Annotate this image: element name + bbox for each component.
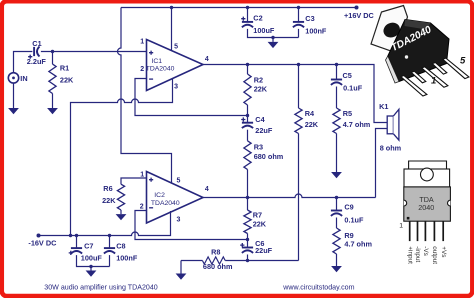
speaker K1 — [387, 116, 393, 134]
wire R8 right — [225, 260, 298, 262]
wire IC2 pin1 — [121, 178, 147, 184]
resistor R3 — [244, 141, 251, 170]
svg-text:+Vs: +Vs — [440, 246, 447, 257]
svg-text:TDA2040: TDA2040 — [146, 65, 175, 72]
wire C9 top — [336, 198, 338, 211]
wire R5 to ground — [336, 134, 338, 173]
wire speaker bottom — [376, 129, 388, 198]
ground C2C3 — [268, 42, 279, 48]
svg-text:22K: 22K — [102, 196, 116, 205]
ground R1 — [47, 108, 58, 114]
svg-text:+16V DC: +16V DC — [344, 11, 375, 20]
wire R6 bottom — [120, 210, 122, 214]
wire -16V rail — [39, 211, 171, 236]
svg-text:100uF: 100uF — [81, 254, 103, 263]
svg-text:-Vs: -Vs — [422, 246, 429, 256]
svg-text:22K: 22K — [305, 120, 319, 129]
svg-text:5: 5 — [177, 178, 181, 185]
junction out1 R2 — [246, 63, 249, 66]
svg-text:22K: 22K — [253, 219, 267, 228]
svg-text:C1: C1 — [32, 39, 41, 48]
svg-text:680 ohm: 680 ohm — [203, 262, 233, 271]
resistor R2 — [244, 74, 251, 105]
svg-text:3: 3 — [177, 217, 181, 224]
svg-text:-16V DC: -16V DC — [28, 238, 57, 247]
wire +16V to IC2 pin5 — [118, 8, 172, 183]
ground input — [8, 108, 19, 114]
svg-text:4.7 ohm: 4.7 ohm — [344, 240, 372, 249]
svg-text:C7: C7 — [84, 242, 93, 251]
svg-text:R7: R7 — [253, 211, 262, 220]
wire R4 top — [298, 65, 300, 109]
wire C2 top — [247, 8, 249, 22]
wire R1 top — [52, 52, 54, 65]
svg-text:0.1uF: 0.1uF — [343, 83, 363, 92]
capacitor C4 — [242, 122, 253, 124]
svg-text:22K: 22K — [60, 76, 74, 85]
minus mark IC1 — [149, 78, 153, 80]
svg-text:2.2uF: 2.2uF — [27, 57, 47, 66]
plus mark IC2 — [149, 178, 153, 182]
wire IC1 output row — [203, 65, 387, 123]
resistor R9 — [333, 228, 340, 254]
svg-text:R5: R5 — [343, 109, 352, 118]
junction out2 C9 — [335, 196, 338, 199]
wire C3 top — [298, 8, 300, 22]
svg-text:2: 2 — [140, 204, 144, 211]
plus mark IC1 — [149, 51, 153, 55]
terminal -16V — [37, 234, 41, 238]
wire IC1 pin3 to -16V — [71, 79, 173, 236]
svg-text:100nF: 100nF — [116, 254, 138, 263]
input source IN — [8, 73, 18, 83]
svg-text:0.1uF: 0.1uF — [344, 215, 364, 224]
wire ground stem C2C3 — [272, 38, 274, 42]
junction out1 C5 — [335, 63, 338, 66]
svg-text:C2: C2 — [253, 14, 262, 23]
svg-text:-input: -input — [414, 246, 421, 262]
minus mark IC2 — [149, 207, 153, 209]
wire C8 top — [109, 236, 111, 249]
svg-text:IC2: IC2 — [154, 192, 165, 199]
terminal +16V — [355, 6, 359, 10]
wire IC2 output row — [203, 194, 376, 197]
svg-text:C4: C4 — [255, 115, 265, 124]
svg-text:5: 5 — [174, 44, 178, 51]
wire R8 left — [181, 260, 202, 262]
ground C7C8 — [86, 271, 97, 277]
capacitor C7 — [71, 247, 82, 249]
wire IC2 pin2 — [135, 211, 248, 240]
capacitor C6 — [242, 247, 253, 249]
junction rail C7 — [75, 234, 78, 237]
wire R7 bottom — [247, 234, 249, 248]
junction rail C3 — [297, 6, 300, 9]
TDA2040 package photo — [371, 6, 469, 97]
svg-text:R4: R4 — [305, 109, 315, 118]
svg-text:4: 4 — [205, 56, 209, 63]
svg-text:680 ohm: 680 ohm — [254, 152, 284, 161]
junction rail IC1 pin5 — [170, 6, 173, 9]
wire C4 to R3 — [247, 130, 249, 141]
svg-text:5: 5 — [460, 56, 466, 67]
wire C9 to R9 — [336, 218, 338, 229]
svg-text:C3: C3 — [305, 14, 314, 23]
ground R5 — [331, 172, 342, 178]
wire R1 bottom — [52, 94, 54, 109]
svg-text:C5: C5 — [343, 71, 352, 80]
capacitor C9 — [331, 210, 342, 212]
capacitor C8 — [104, 247, 115, 249]
op-amp IC2 — [147, 172, 204, 224]
wire C5 to R5 — [336, 87, 338, 109]
junction out2 R7 — [246, 196, 249, 199]
svg-text:1: 1 — [399, 223, 403, 230]
wire R7 top — [247, 198, 249, 211]
junction out1 R4 — [297, 63, 300, 66]
resistor R5 — [333, 108, 340, 134]
resistor R6 — [117, 184, 124, 210]
svg-text:C8: C8 — [116, 242, 125, 251]
wire C6 bottom — [247, 255, 249, 261]
svg-text:4: 4 — [205, 186, 209, 193]
wire C8 bottom — [109, 255, 111, 266]
resistor R7 — [244, 210, 251, 234]
svg-text:30W audio amplifier using TDA2: 30W audio amplifier using TDA2040 — [44, 284, 157, 292]
svg-text:2040: 2040 — [418, 203, 434, 212]
svg-text:22uF: 22uF — [255, 246, 273, 255]
svg-text:IN: IN — [20, 74, 27, 83]
junction rail C8 — [108, 234, 111, 237]
svg-text:www.circuitstoday.com: www.circuitstoday.com — [282, 284, 354, 292]
svg-text:R6: R6 — [103, 184, 112, 193]
svg-text:R2: R2 — [254, 76, 263, 85]
svg-text:100nF: 100nF — [305, 27, 327, 36]
svg-text:output: output — [431, 246, 438, 264]
svg-text:TDA2040: TDA2040 — [151, 200, 180, 207]
junction C2C3 ground — [271, 36, 274, 39]
svg-text:R1: R1 — [60, 64, 69, 73]
svg-text:1: 1 — [140, 39, 144, 46]
svg-text:1: 1 — [431, 75, 436, 86]
wire input to C1 — [14, 52, 33, 73]
junction C1/R1 — [51, 50, 54, 53]
svg-text:R8: R8 — [211, 248, 220, 257]
resistor R1 — [49, 64, 56, 93]
wire C7 top — [76, 236, 78, 249]
capacitor C3 — [293, 21, 304, 23]
wire C1 to IC1 pin1 — [41, 51, 147, 53]
plus sign C1 — [28, 55, 32, 59]
wire input to ground — [13, 83, 15, 108]
svg-text:100uF: 100uF — [253, 26, 275, 35]
ground R6 — [116, 214, 127, 220]
capacitor C1 — [33, 47, 35, 56]
op-amp IC1 — [147, 40, 204, 91]
junction R7 C6 — [246, 238, 249, 241]
wire ground stem C7C8 — [90, 267, 92, 271]
svg-text:22K: 22K — [254, 85, 268, 94]
wire R8 ground stem — [180, 261, 182, 274]
svg-text:IC1: IC1 — [152, 58, 163, 65]
wire C5 top — [336, 65, 338, 80]
ground R8 — [176, 274, 187, 280]
wire R2 top — [247, 65, 249, 75]
wire R3 bottom — [247, 170, 249, 198]
svg-text:2: 2 — [140, 66, 144, 73]
wire IC1 pin5 — [171, 8, 173, 51]
ground R9 — [331, 266, 342, 272]
junction C4 node — [246, 114, 249, 117]
svg-text:22uF: 22uF — [255, 126, 273, 135]
resistor R8 — [202, 257, 225, 264]
capacitor C2 — [242, 21, 253, 23]
wire +16V rail — [121, 7, 357, 9]
junction C6 R8 R4 — [246, 259, 249, 262]
wire IC1 pin2 feedback — [135, 79, 248, 116]
resistor R4 — [295, 108, 302, 134]
svg-text:8 ohm: 8 ohm — [380, 143, 402, 152]
junction C7C8 ground — [89, 265, 92, 268]
svg-text:K1: K1 — [379, 102, 388, 111]
wire R4 bottom — [298, 134, 300, 261]
junction rail C2 — [246, 6, 249, 9]
wire R2 bottom — [247, 105, 249, 123]
wire C7 bottom — [77, 255, 110, 266]
wire R9 bottom — [336, 254, 338, 266]
capacitor C5 — [331, 79, 342, 81]
svg-text:+input: +input — [406, 246, 413, 264]
svg-text:4.7 ohm: 4.7 ohm — [343, 120, 371, 129]
wire C2 bottom — [248, 29, 299, 38]
TDA2040 pinout diagram — [404, 161, 451, 221]
svg-text:R3: R3 — [254, 142, 263, 151]
svg-text:C9: C9 — [344, 203, 353, 212]
wire C3 bottom — [298, 29, 300, 38]
junction rail pin3 wire — [69, 234, 72, 237]
svg-text:3: 3 — [174, 84, 178, 91]
